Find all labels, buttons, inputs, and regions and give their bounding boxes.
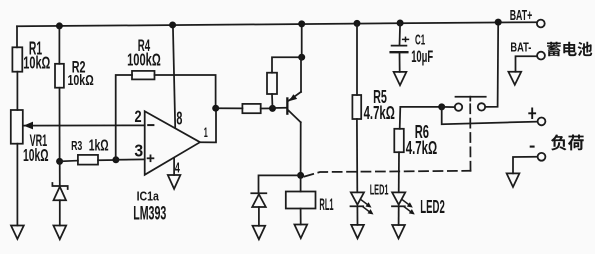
wire VR1 bottom to ground [16, 144, 18, 226]
svg-text:10μF: 10μF [411, 48, 433, 66]
terminal load + [538, 118, 546, 126]
plus sign C1 [402, 37, 409, 43]
node collector junction [297, 172, 304, 179]
node emitter junction [298, 54, 305, 61]
svg-text:C1: C1 [415, 33, 425, 49]
svg-text:RL1: RL1 [319, 196, 333, 214]
svg-text:LED2: LED2 [420, 196, 445, 217]
svg-text:LED1: LED1 [370, 181, 389, 198]
svg-text:LM393: LM393 [133, 204, 166, 225]
ground (pin 4) [168, 175, 181, 189]
label 负荷 (load) [551, 135, 584, 151]
node rail/R2 junction [56, 22, 63, 29]
wire R3 left lead [60, 160, 78, 163]
svg-text:BAT+: BAT+ [510, 7, 533, 24]
minus sign pin2 [148, 124, 153, 126]
wire RL1 to ground [300, 209, 302, 225]
pin 4 wire down [173, 158, 175, 175]
wire load - to ground [513, 157, 538, 174]
minus sign load [530, 146, 535, 148]
wire top supply rail [17, 22, 537, 26]
op-amp U1 LM393 triangle [145, 111, 200, 175]
resistor R4 [132, 71, 155, 80]
wire R2 bottom to R3/zener node [59, 88, 61, 162]
plus sign load [528, 108, 536, 120]
resistor base (unlabeled) [242, 104, 260, 113]
svg-text:4.7kΩ: 4.7kΩ [406, 137, 438, 158]
plus sign pin3 [148, 155, 154, 161]
resistor R3 [78, 155, 98, 165]
wire rail to R2 [58, 26, 60, 64]
node pin8 on rail [169, 21, 176, 28]
capacitor C1 [391, 23, 408, 72]
ground (zener) [53, 226, 66, 240]
wire rail to R5 [356, 23, 358, 95]
pin 8 wire to rail [173, 25, 175, 127]
wire R4 feedback vertical [116, 75, 132, 160]
ground (LED1) [351, 225, 364, 239]
svg-text:8: 8 [176, 109, 182, 129]
label 蓄电池 (battery) [547, 42, 592, 57]
wire output node to base resistor [216, 107, 243, 109]
ground (LED2) [392, 225, 405, 239]
node output junction [212, 105, 219, 112]
ground (load -) [507, 173, 520, 187]
wire left drop from rail to R1 [16, 26, 18, 47]
wire R1 to VR1 [16, 72, 18, 110]
resistor R2 [55, 64, 64, 88]
svg-text:BAT-: BAT- [510, 40, 531, 55]
wire collector node to diode D2 [259, 175, 301, 193]
terminal load - [538, 153, 546, 161]
wire load + [442, 107, 538, 124]
wire output pin1 to node [200, 108, 216, 142]
svg-text:10kΩ: 10kΩ [68, 72, 94, 89]
wire dashed mechanical link (horizontal) [305, 171, 471, 177]
terminal BAT- [537, 52, 545, 60]
svg-text:2: 2 [135, 107, 142, 126]
wire R6 to LED2 [398, 152, 400, 192]
LED LED1 [351, 192, 374, 225]
terminal BAT+ [537, 20, 545, 28]
wire R3 right lead [98, 159, 116, 161]
zener diode D1 [52, 161, 67, 225]
svg-text:R3: R3 [71, 138, 82, 153]
wire R4 right to output node [155, 75, 216, 108]
svg-text:4.7kΩ: 4.7kΩ [364, 102, 395, 123]
wire base node to Q1 base [273, 107, 287, 109]
potentiometer VR1 [11, 110, 23, 144]
node contact/load junction [438, 103, 445, 110]
resistor R5 [352, 95, 361, 119]
ground (VR1) [11, 226, 24, 240]
ground (BAT-) [508, 72, 521, 85]
svg-text:10kΩ: 10kΩ [23, 145, 49, 165]
relay contact K1 [442, 22, 499, 111]
node R3 left junction [56, 158, 63, 165]
node rail/collector branch [298, 20, 305, 27]
svg-text:1kΩ: 1kΩ [89, 137, 109, 154]
resistor R6 [394, 129, 404, 152]
wire R6 top / contact node [400, 107, 442, 129]
node R3 right / R4 feedback junction [112, 156, 119, 163]
wire node to op-amp pin 3 [116, 158, 145, 160]
ground (C1) [394, 72, 407, 85]
LED LED2 [392, 192, 415, 225]
wire emitter node to rail [301, 24, 303, 57]
node rail/R5 junction [354, 20, 361, 27]
diode D2 [251, 193, 266, 226]
svg-text:10kΩ: 10kΩ [23, 52, 50, 72]
transistor Q1 (PNP) [286, 57, 301, 175]
wire BAT- to ground [516, 56, 538, 72]
node base junction [269, 105, 276, 112]
wire VR1 wiper to pin 2 [24, 124, 145, 126]
svg-text:3: 3 [134, 140, 143, 160]
resistor pull-up (unlabeled) [267, 73, 277, 94]
svg-text:100kΩ: 100kΩ [127, 49, 161, 69]
resistor R1 [12, 47, 22, 71]
svg-text:1: 1 [204, 125, 208, 141]
svg-text:4: 4 [175, 160, 180, 177]
wire collector node to RL1 [300, 175, 302, 191]
wire pull-up top to emitter node [272, 57, 302, 72]
wire dashed mechanical link (vertical) [469, 100, 471, 171]
wire R5 to LED1 [356, 119, 358, 192]
node rail/BAT+ junction [495, 19, 502, 26]
wiper arrowhead [24, 122, 34, 130]
svg-text:IC1a: IC1a [137, 189, 160, 203]
wire pull-up bottom to base node [271, 94, 274, 108]
ground (diode D2) [253, 226, 266, 240]
relay coil RL1 [286, 192, 316, 209]
wire base resistor to base node [261, 107, 273, 109]
node rail/C1 junction [397, 19, 404, 26]
ground (RL1) [294, 225, 307, 239]
